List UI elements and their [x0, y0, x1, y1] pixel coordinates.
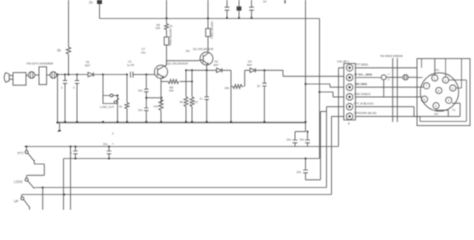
wire pin3 stub — [306, 84, 344, 87]
svg-text:TC: TC — [452, 108, 456, 112]
svg-text:470: 470 — [154, 105, 159, 109]
svg-text:LOW_CUT: LOW_CUT — [100, 105, 114, 109]
plug pin 2 — [443, 77, 449, 83]
resistor R9 10k — [225, 85, 244, 91]
capacitor C6 (x=65) — [61, 75, 67, 123]
svg-text:PTT_B (BLACK): PTT_B (BLACK) — [354, 101, 374, 105]
switch PTT — [18, 146, 45, 176]
plug pin 5 — [433, 103, 439, 109]
plug pin 8 center — [436, 87, 442, 93]
capacitor C8b 10u (x=146.3 lower) — [138, 108, 149, 122]
svg-text:45: 45 — [180, 100, 184, 104]
capacitor C3 polarized (top, x=239) — [237, 0, 242, 18]
wire line UP/DOWN — [22, 194, 332, 196]
svg-text:TM-V8000 DM9008: TM-V8000 DM9008 — [380, 54, 403, 58]
node junctions on mic line — [57, 74, 148, 76]
wire plug internal pin2 stub — [417, 77, 423, 79]
switch UP — [14, 195, 30, 211]
wire into Q1 base — [146, 74, 154, 76]
wire mic signal line — [57, 74, 88, 76]
wire Q1 collector — [164, 61, 167, 67]
inline bead FB4 — [403, 75, 417, 80]
mic cartridge box — [13, 73, 26, 86]
wire lock line to riser — [43, 187, 327, 189]
svg-text:NC: NC — [434, 112, 438, 116]
svg-text:6: 6 — [424, 98, 426, 102]
capacitor C7 (x=77) — [73, 75, 79, 123]
svg-text:10u: 10u — [287, 138, 292, 142]
svg-text:100: 100 — [156, 26, 161, 30]
svg-text:PTT: PTT — [18, 152, 24, 156]
wire line2 — [64, 158, 320, 160]
svg-text:2: 2 — [112, 132, 114, 136]
svg-text:10u: 10u — [297, 170, 302, 174]
resistor R4 470 (Q1 emitter) — [154, 100, 164, 123]
svg-text:4: 4 — [448, 99, 450, 103]
svg-text:UP/DOWN (BLUE): UP/DOWN (BLUE) — [354, 111, 377, 115]
wire — [207, 70, 231, 86]
capacitor C15 10u (x=305.5 line2 lower) — [297, 158, 321, 180]
svg-text:+: + — [112, 142, 114, 146]
microphone element MC1 — [4, 73, 13, 83]
wire bridge base-emitter network — [146, 97, 161, 99]
wire vertical x=319 from bus corner — [319, 19, 321, 159]
wire plug internal left pin6 — [417, 96, 422, 98]
capacitor C13 (line1-line2, x=75.4) — [70, 146, 78, 159]
wire plug internal right pin3 — [456, 59, 462, 88]
svg-text:2k: 2k — [57, 49, 61, 53]
plug pin 7 — [423, 83, 429, 89]
inline bead L2 — [50, 72, 57, 79]
wire pin4 stub — [320, 92, 344, 97]
node junction dots on ground bus — [56, 121, 306, 124]
plug box — [417, 59, 470, 126]
plug pin 3 — [450, 85, 456, 91]
wire output to connector — [255, 70, 343, 76]
plug pin 4 — [446, 97, 452, 103]
inline bead FB3 (shield ring) — [381, 74, 403, 97]
svg-text:4.5: 4.5 — [194, 100, 198, 104]
svg-text:CN1 8P 1: CN1 8P 1 — [337, 60, 350, 64]
wire line1 PTT — [24, 146, 338, 148]
svg-text:S*: S* — [388, 80, 390, 82]
capacitor C9 1u (on emitter drop x=206.7) — [200, 97, 209, 123]
switch LOW CUT branch — [100, 75, 119, 123]
wire Q2 collector up — [207, 45, 210, 53]
svg-text:2: 2 — [73, 86, 75, 90]
switch LOCK — [14, 175, 44, 210]
ferrite bead FB1 (box on x=166.5) — [164, 28, 172, 65]
wire v326 riser to pin5 — [327, 107, 344, 188]
wire Q1 collector to Q2 base — [167, 60, 198, 62]
svg-text:NC: NC — [435, 68, 439, 72]
svg-text:LOCK: LOCK — [14, 180, 24, 184]
connector pins 1-6 — [346, 65, 353, 120]
wire Q1 emitter drop — [161, 78, 164, 104]
svg-text:2: 2 — [445, 78, 447, 82]
wire pin4 lead + label GND SHIELD — [354, 92, 417, 97]
wire v320 riser — [321, 111, 327, 179]
wire pin2 lead + label AF OUT WH — [354, 73, 381, 78]
wire pin5 lead + label PTT B BLACK — [354, 101, 414, 106]
wire plug route PTT_B under — [414, 103, 460, 116]
svg-text:22k: 22k — [169, 89, 174, 93]
svg-text:MA*: MA* — [214, 63, 220, 67]
capacitor C1 (cut at top, x=99) — [89, 0, 102, 19]
plug pin 6 — [421, 96, 427, 102]
svg-text:MA*: MA* — [247, 63, 253, 67]
wire Q2 emitter down — [207, 64, 208, 97]
plug circle MC connector — [420, 73, 458, 111]
svg-text:1u: 1u — [200, 97, 204, 101]
svg-text:10u: 10u — [138, 89, 143, 93]
svg-text:10k: 10k — [225, 86, 230, 90]
wire plug internal top — [434, 59, 436, 75]
svg-text:R9: R9 — [186, 49, 190, 53]
capacitor C12 10u (x=307.5) — [300, 131, 310, 147]
cable sheath — [393, 58, 398, 122]
wire top bus — [100, 18, 320, 20]
wire line1 drop x=70.5 — [70, 147, 72, 211]
wire v338 riser to pin1 — [339, 68, 344, 147]
resistor R5 1k (vertical at x=166.5) — [156, 0, 174, 37]
ground stub arrow — [57, 122, 61, 132]
capacitor C14 polarized (line1-line2, x=109) — [103, 142, 114, 159]
diode D3 inline — [247, 60, 255, 73]
svg-text:2: 2 — [61, 86, 63, 90]
wire plug internal bottom pin5 stub — [436, 109, 448, 117]
inline bead L1 — [28, 72, 35, 79]
svg-text:GND SHIELD: GND SHIELD — [354, 92, 370, 96]
svg-text:Q1 2SC1815GR: Q1 2SC1815GR — [168, 62, 188, 66]
capacitor C10 22 (x=264.4) — [257, 69, 267, 122]
svg-text:10u: 10u — [138, 108, 143, 112]
wire pin1 lead + label PTT RED — [355, 63, 417, 68]
capacitor C2 (top, x=227) — [225, 0, 230, 18]
svg-text:FM-107U ADM2808: FM-107U ADM2808 — [27, 61, 54, 65]
wire pin6 lead + label UP DOWN BLUE — [354, 111, 420, 117]
svg-text:1k: 1k — [119, 105, 123, 109]
wire resistor node drop — [230, 87, 232, 123]
wire v331.6 riser to pin6 — [332, 116, 344, 194]
svg-text:TRIO MA280: TRIO MA280 — [210, 21, 214, 39]
svg-text:7: 7 — [426, 84, 428, 88]
svg-text:8: 8 — [438, 89, 440, 93]
wire emitter node bar — [186, 69, 207, 71]
svg-text:PTT (RED): PTT (RED) — [355, 63, 368, 67]
wire plug internal left pin7 — [417, 86, 423, 88]
wire line2 left drop — [63, 159, 65, 211]
svg-text:MA*: MA* — [85, 64, 91, 68]
wire plug internal pin2 — [445, 59, 447, 77]
resistor R7a (x=186) — [180, 70, 189, 122]
ground bus — [58, 122, 307, 124]
wire plug top loop pin1 — [421, 59, 423, 68]
resistor R1 2k (vertical at x=68) — [57, 0, 71, 75]
wire — [93, 74, 127, 76]
capacitor C4 (top, x=251.5) — [249, 0, 267, 18]
ferrite bead FB2 (box on x=208) — [206, 0, 214, 45]
svg-text:1: 1 — [434, 76, 436, 80]
wire stub (cut at top, x=285) — [284, 0, 286, 3]
svg-text:2u: 2u — [89, 0, 93, 4]
svg-text:AF 2CL...(WH): AF 2CL...(WH) — [354, 73, 372, 77]
svg-text:C*: C* — [388, 74, 391, 76]
svg-text:8: 8 — [348, 122, 350, 126]
wire — [47, 74, 50, 76]
diode D2 inline — [214, 60, 222, 73]
wire pin3 lead + label MIC WH — [355, 82, 417, 87]
svg-text:10u: 10u — [141, 50, 146, 54]
wire — [245, 70, 250, 86]
capacitor C11 10u (x=295) — [287, 132, 306, 147]
wire plug route UP/DOWN under — [420, 80, 466, 121]
resistor R2 1k (x=127 drop) — [119, 75, 129, 123]
filter block FL1 — [39, 67, 47, 85]
node junctions on top bus — [166, 17, 253, 19]
svg-text:10: 10 — [263, 0, 267, 4]
resistor R6 22k feedback — [161, 80, 192, 93]
svg-text:1u 50: 1u 50 — [127, 63, 134, 67]
capacitor C8a 10u (x=146.3 upper) — [138, 75, 149, 109]
svg-text:Q2 2SC1815GR: Q2 2SC1815GR — [193, 47, 213, 51]
svg-text:MIC (WH): MIC (WH) — [355, 82, 367, 86]
diode D1 inline — [85, 60, 93, 77]
svg-text:3: 3 — [452, 86, 454, 90]
svg-text:5: 5 — [435, 104, 437, 108]
svg-text:10u: 10u — [103, 142, 108, 146]
resistor R7b (x=192) — [190, 70, 198, 122]
transistor Q2 2SC1815 — [193, 47, 213, 65]
svg-text:TRIO MA280: TRIO MA280 — [169, 28, 173, 46]
transistor Q1 2SC1815 — [154, 62, 187, 79]
wire vertical x=305.5 from top — [305, 0, 307, 132]
capacitor C5 coupling inline — [127, 60, 146, 78]
svg-text:1k: 1k — [170, 24, 174, 28]
wire shield drop x=57 — [57, 75, 59, 123]
svg-text:10u: 10u — [300, 138, 305, 142]
wire — [35, 74, 39, 76]
wire mic output — [26, 74, 28, 76]
svg-text:UP: UP — [14, 200, 18, 204]
svg-text:22: 22 — [257, 84, 261, 88]
plug pin 1 — [432, 75, 438, 81]
connector CN1 box — [337, 60, 355, 126]
wire Q2 base lead — [197, 59, 203, 62]
